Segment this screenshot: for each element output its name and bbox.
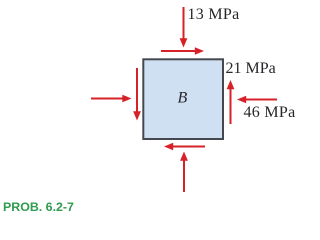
- svg-text:13 MPa: 13 MPa: [188, 6, 240, 23]
- arrow right shear 21 MPa (up): [227, 80, 235, 124]
- arrow 13 MPa (top normal, down): [180, 7, 188, 48]
- arrow left normal (right, toward face): [91, 95, 132, 103]
- arrow top shear (right): [161, 47, 204, 55]
- svg-text:PROB. 6.2-7: PROB. 6.2-7: [3, 200, 74, 214]
- arrow bottom shear (left): [164, 143, 205, 151]
- arrow left shear (down): [133, 68, 141, 121]
- svg-text:21 MPa: 21 MPa: [226, 60, 276, 77]
- arrow bottom normal (up, toward face): [180, 152, 188, 193]
- stress element B (square): [143, 59, 223, 139]
- svg-text:B: B: [178, 89, 188, 106]
- arrow right normal 46 MPa (left, toward face): [237, 96, 277, 104]
- svg-text:46 MPa: 46 MPa: [244, 104, 296, 121]
